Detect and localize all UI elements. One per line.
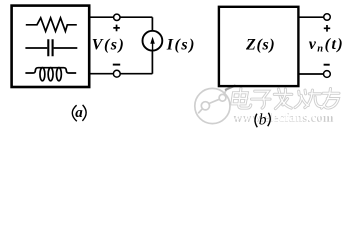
svg-text:Z(s): Z(s) [245,36,275,53]
svg-text:V(s): V(s) [92,36,126,53]
svg-text:www.elecfans.com: www.elecfans.com [231,109,335,124]
svg-text:I(s): I(s) [166,36,196,53]
svg-text:vn(t): vn(t) [309,36,344,54]
svg-text:a: a [75,105,83,121]
svg-text:b: b [259,112,267,129]
